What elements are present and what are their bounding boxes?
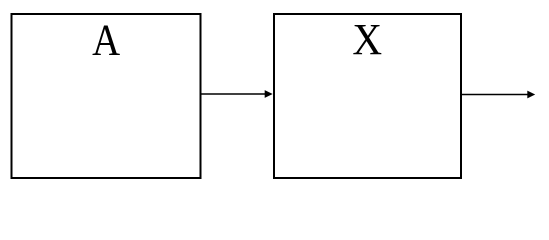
svg-text:X: X bbox=[352, 16, 382, 65]
svg-text:A: A bbox=[92, 16, 120, 65]
